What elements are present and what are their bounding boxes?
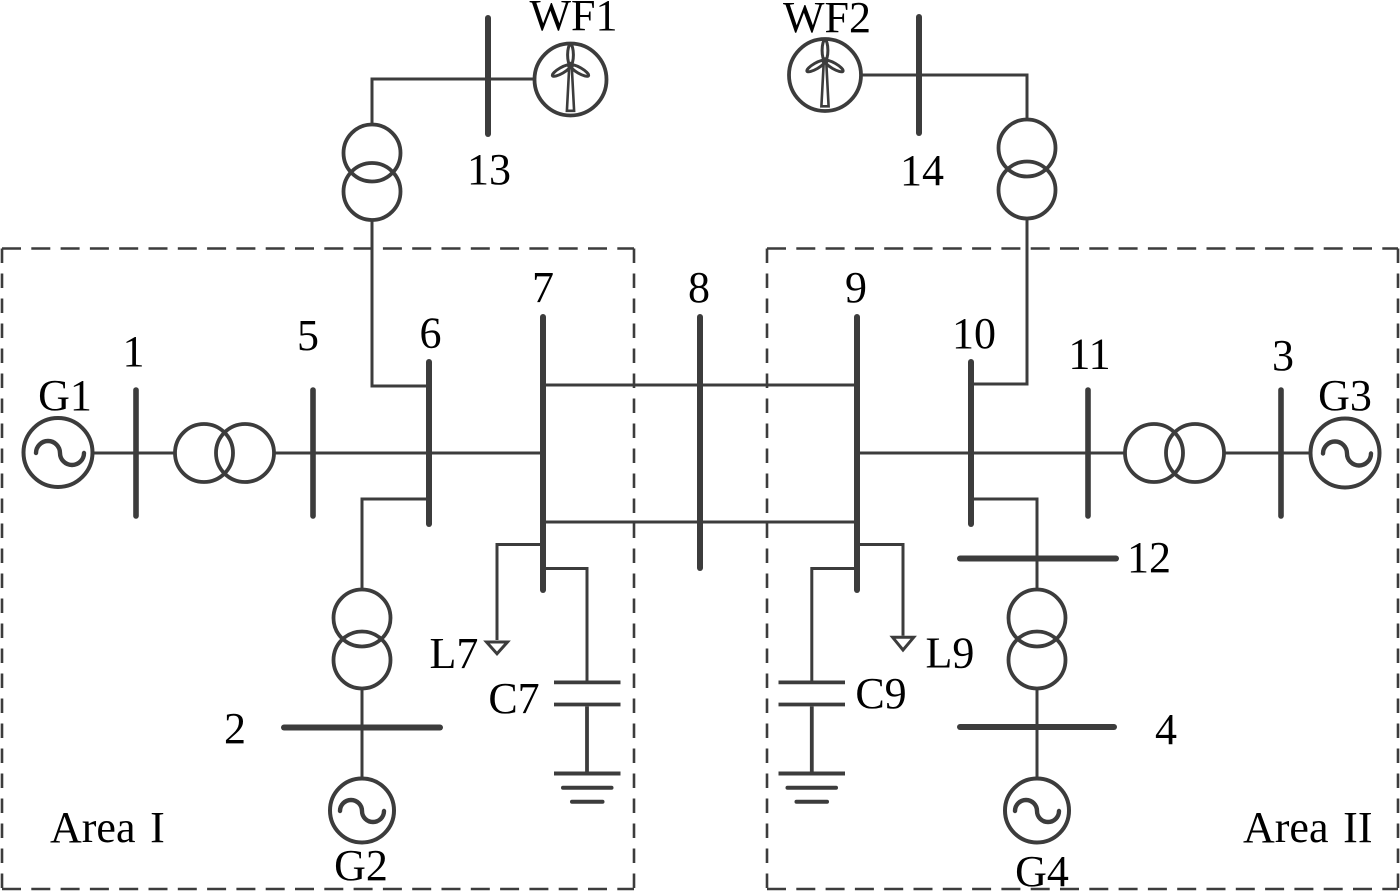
wire bus6 to G2 transformer: [362, 499, 429, 590]
transformer G4 step-up: [1009, 590, 1066, 689]
capacitor C9: [779, 682, 846, 773]
bus 8: [697, 317, 703, 568]
wire bus4 to G4: [1036, 727, 1039, 779]
svg-text:L9: L9: [926, 629, 975, 678]
load L9 arrow: [893, 637, 914, 650]
transformer T1 (bus1-bus5): [175, 424, 274, 482]
svg-text:3: 3: [1272, 331, 1294, 380]
bus 6: [426, 362, 432, 524]
svg-text:9: 9: [845, 263, 867, 312]
generator G1: [24, 418, 93, 487]
wire WF2 transformer to bus10: [971, 219, 1027, 385]
wire WF1 to transformer: [372, 79, 535, 125]
transformer WF2 step-up: [999, 120, 1056, 219]
wire load L7 feeder: [497, 545, 543, 641]
svg-text:7: 7: [532, 263, 554, 312]
generator G2: [330, 779, 394, 843]
ground C7: [554, 774, 621, 802]
bus 13: [485, 18, 491, 134]
wire bus10 to bus12: [971, 499, 1037, 559]
bus 14: [916, 17, 922, 133]
wire capacitor C7 feeder: [543, 569, 587, 681]
svg-text:8: 8: [688, 263, 710, 312]
bus 5: [310, 390, 316, 516]
bus 1: [133, 390, 139, 516]
svg-text:WF2: WF2: [783, 0, 871, 42]
generator G4: [1005, 779, 1069, 843]
wire bus2 to G2: [361, 728, 364, 779]
wire G2 transformer to bus2: [361, 688, 364, 728]
svg-text:2: 2: [224, 704, 246, 753]
wind farm WF2: [789, 39, 861, 111]
load L7 arrow: [487, 642, 508, 654]
svg-text:12: 12: [1127, 533, 1171, 582]
Area I dashed boundary: [2, 249, 634, 890]
bus 3: [1278, 390, 1284, 516]
wire main right: bus9 to G3: [857, 452, 1311, 455]
svg-text:C9: C9: [855, 669, 906, 718]
svg-text:6: 6: [420, 309, 442, 358]
svg-text:10: 10: [952, 309, 996, 358]
svg-text:14: 14: [900, 146, 944, 195]
svg-text:5: 5: [297, 311, 319, 360]
svg-text:Area II: Area II: [1243, 803, 1372, 852]
bus 12: [960, 556, 1116, 562]
generator G3: [1311, 419, 1380, 488]
bus 10: [968, 362, 974, 524]
bus 11: [1085, 390, 1091, 516]
wire load L9 feeder: [857, 545, 903, 636]
svg-text:G1: G1: [38, 371, 92, 420]
bus 9: [854, 317, 860, 590]
transformer WF1 step-up: [344, 125, 401, 221]
Area II dashed boundary: [767, 249, 1398, 890]
capacitor C7: [554, 682, 621, 773]
wire tie line upper bus7-bus9: [543, 384, 857, 387]
bus 2: [284, 725, 440, 731]
wire WF2 to transformer: [861, 75, 1027, 120]
svg-text:G4: G4: [1015, 847, 1069, 891]
svg-text:C7: C7: [488, 674, 539, 723]
svg-text:1: 1: [123, 327, 145, 376]
wire G4 transformer to bus4: [1036, 688, 1039, 727]
svg-text:Area I: Area I: [50, 803, 165, 852]
svg-text:G3: G3: [1318, 371, 1372, 420]
wire capacitor C9 feeder: [812, 569, 857, 681]
svg-text:4: 4: [1155, 705, 1177, 754]
wire main left bus: G1 to bus7: [93, 452, 544, 455]
wind farm WF1: [535, 44, 607, 116]
transformer G2 step-up: [334, 590, 391, 689]
transformer T2 (bus11-bus3): [1125, 424, 1224, 482]
svg-text:G2: G2: [334, 841, 388, 890]
svg-text:L7: L7: [430, 629, 479, 678]
bus 4: [960, 724, 1114, 730]
ground C9: [779, 774, 846, 802]
svg-text:13: 13: [467, 145, 511, 194]
wire WF1 transformer to bus6: [372, 220, 429, 386]
svg-text:11: 11: [1068, 330, 1110, 379]
wire tie line lower bus7-bus9: [543, 521, 857, 524]
wire bus12 to G4 transformer: [1036, 559, 1039, 591]
bus 7: [540, 317, 546, 590]
svg-text:WF1: WF1: [530, 0, 618, 40]
